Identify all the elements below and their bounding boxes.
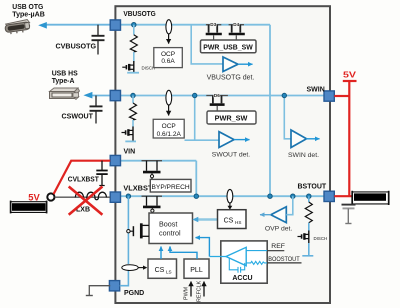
REFCLK arrow [203, 282, 205, 297]
svg-text:CSWOUT: CSWOUT [62, 114, 94, 121]
PWR_USB_SW box [201, 40, 257, 53]
transistor below VLXBST rail [142, 196, 163, 213]
svg-text:PWR_SW: PWR_SW [215, 114, 248, 123]
transistor DISCH divider [298, 231, 309, 244]
svg-text:VLXBST: VLXBST [123, 186, 153, 193]
svg-text:HS: HS [235, 220, 241, 225]
svg-text:0.6/1.2A: 0.6/1.2A [157, 131, 182, 138]
feedback capacitor ACCU [229, 258, 244, 273]
transistor D6 (PWR_SW) [206, 96, 228, 112]
wire: red diagonal to VIN [54, 161, 111, 194]
PLL box [184, 259, 209, 278]
supply bar left [11, 201, 47, 214]
svg-text:CS: CS [155, 267, 165, 274]
resistor divider at BSTOUT [308, 196, 310, 202]
net REF [267, 250, 284, 252]
svg-text:5V: 5V [343, 70, 356, 80]
wire: SWOUT det branch vertical [194, 96, 196, 141]
transistor boost switch [127, 223, 149, 238]
svg-text:REF: REF [271, 243, 285, 250]
IC main box [115, 6, 330, 303]
pin PGND [109, 281, 119, 291]
svg-text:Type-µAB: Type-µAB [12, 9, 45, 18]
svg-text:OVP det.: OVP det. [265, 225, 293, 232]
capacitor CVLXBST [96, 161, 107, 186]
wire: VBUSOTG rail (row1) [120, 24, 270, 26]
CS_HS box [218, 210, 247, 229]
terminal circle [47, 193, 54, 200]
svg-text:Boost: Boost [159, 220, 177, 229]
op-amp SWOUT det [219, 132, 234, 148]
svg-text:D6: D6 [214, 93, 220, 98]
svg-text:PWR_USB_SW: PWR_USB_SW [203, 43, 253, 52]
wire: long vertical from rail1 down to BSTOUT rail [269, 25, 271, 197]
svg-text:Type-A: Type-A [52, 76, 75, 85]
wire: VBUSOTG det branch [191, 25, 223, 64]
wire: ACCU out to Boost control [196, 238, 209, 257]
wire: triangle top input to REF [246, 250, 267, 252]
wire: PLL to Boost control [170, 247, 197, 260]
transistor over BYP/PRECH [142, 161, 163, 180]
wire: from terminal to VLXBST [55, 196, 111, 198]
capacitor CVBUSOTG [92, 25, 105, 55]
svg-text:DISCH: DISCH [142, 66, 156, 71]
op-amp VBUSOTG det [223, 57, 238, 72]
inductor LXB [75, 192, 106, 200]
svg-text:CVLXBST: CVLXBST [68, 176, 100, 183]
svg-text:D4: D4 [233, 22, 239, 27]
svg-text:BOOSTOUT: BOOSTOUT [268, 256, 300, 263]
resistor to BOOSTOUT (blue) [246, 261, 267, 264]
pin CSWOUT row [110, 90, 120, 100]
svg-text:CVBUSOTG: CVBUSOTG [56, 44, 97, 51]
svg-text:OCP: OCP [162, 123, 176, 130]
svg-text:BSTOUT: BSTOUT [298, 183, 327, 190]
svg-text:0.6A: 0.6A [161, 58, 175, 65]
USB OTG connector icon [4, 19, 30, 35]
op-amp OVP det [271, 207, 287, 223]
wire: 5V vertical red [348, 81, 350, 196]
svg-text:PLL: PLL [190, 267, 203, 274]
svg-text:SWIN det.: SWIN det. [288, 152, 319, 159]
wire: CS_LS to Boost control [160, 247, 162, 260]
svg-text:VBUSOTG det.: VBUSOTG det. [207, 75, 255, 82]
wire: VIN rail [120, 160, 196, 162]
transistor DISCH row2 [122, 127, 134, 141]
wire: CS_HS to Boost control [198, 218, 218, 220]
capacitor CSWOUT [90, 96, 103, 124]
resistor R row2 [130, 103, 137, 120]
pin SWIN [324, 91, 334, 101]
wire: SWOUT/SWIN rail (row2) [120, 95, 324, 97]
wire: VLXBST to BSTOUT rail [120, 195, 324, 197]
wire: SWIN det branch [284, 96, 291, 139]
svg-text:BYP/PRECH: BYP/PRECH [152, 184, 190, 191]
BYP/PRECH box [150, 179, 191, 192]
node: junction dots [132, 23, 136, 27]
net BOOSTOUT [267, 262, 301, 264]
wire: OVP det input [286, 196, 293, 215]
current sense ellipse CS_HS [227, 189, 233, 203]
ACCU box [221, 241, 267, 283]
svg-text:REFCLK: REFCLK [197, 280, 203, 302]
svg-text:5V: 5V [28, 192, 40, 202]
Boost control box [149, 213, 193, 244]
current sense ellipse CS_LS [122, 265, 138, 271]
svg-text:SWOUT det.: SWOUT det. [212, 152, 251, 159]
svg-text:PWM: PWM [184, 286, 190, 300]
svg-text:LS: LS [166, 269, 172, 274]
OCP 0.6A box [154, 48, 183, 68]
capacitor at BSTOUT [342, 205, 356, 224]
transistor D3 (PWR_USB_SW) [206, 25, 222, 40]
arrow to USB A [83, 92, 92, 99]
wire: ACCU output inside box [209, 256, 226, 258]
transistor D4 (PWR_USB_SW) [229, 25, 245, 40]
resistor R row1 [130, 35, 137, 52]
arrow to USB OTG [38, 22, 47, 29]
wire: red to SWIN [334, 95, 349, 97]
svg-text:VBUSOTG: VBUSOTG [123, 11, 156, 18]
svg-text:control: control [159, 228, 181, 237]
CS_LS box [148, 259, 177, 278]
svg-text:VIN: VIN [124, 149, 136, 156]
red X over LXB [69, 187, 103, 215]
resistor R divider [305, 202, 312, 223]
pin VIN [110, 155, 120, 165]
current sense ellipse OCP1 [166, 20, 172, 34]
op-amp SWIN det [291, 130, 307, 148]
op-amp ACCU triangle [226, 247, 246, 265]
wire: ellipse to PGND [120, 271, 129, 286]
PWR_SW box [207, 111, 256, 124]
load bar right [352, 191, 389, 205]
pin BSTOUT [324, 191, 334, 201]
OCP 0.6/1.2A box [153, 119, 184, 138]
pin VBUSOTG [110, 20, 120, 30]
PWM arrow [190, 282, 192, 297]
wire: boost switch branch [127, 196, 129, 264]
current sense ellipse OCP2 [166, 90, 172, 105]
wire: vertical VIN rail to VLXBST rail [195, 161, 197, 196]
USB A connector icon [50, 88, 80, 100]
resistor + discharge branch row2 [132, 96, 134, 104]
wire: external VBUSOTG wire [46, 24, 111, 26]
svg-text:SWIN: SWIN [307, 86, 325, 93]
svg-text:D3: D3 [210, 22, 216, 27]
resistor + discharge branch row1 [133, 25, 135, 35]
ground PGND external [89, 286, 110, 296]
wire: SWOUT det branch horizontal [185, 139, 220, 141]
svg-text:CS: CS [224, 217, 234, 224]
svg-text:PGND: PGND [124, 290, 144, 297]
svg-text:DISCH: DISCH [314, 236, 328, 241]
wire: external SWOUT wire [92, 95, 111, 97]
svg-text:ACCU: ACCU [232, 275, 252, 282]
transistor DISCH row1 [122, 61, 134, 72]
wire: red to BSTOUT / load [334, 195, 352, 197]
pin VLXBST [110, 192, 120, 202]
